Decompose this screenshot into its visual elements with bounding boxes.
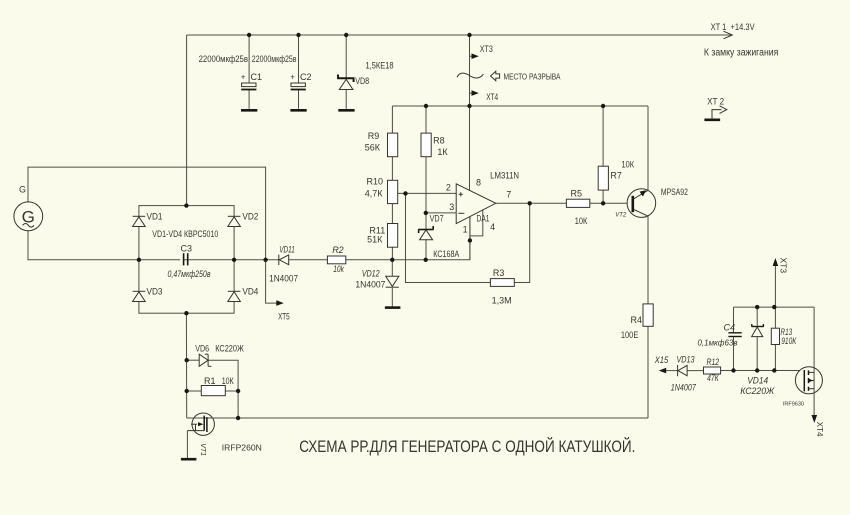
capacitor C3 xyxy=(168,244,211,280)
svg-text:10К: 10К xyxy=(622,160,635,170)
svg-text:VD4: VD4 xyxy=(242,286,258,296)
junction: VD14 top xyxy=(755,305,759,309)
svg-text:G: G xyxy=(19,185,26,195)
wire: R4 down to gate line xyxy=(647,326,649,418)
svg-text:VD7: VD7 xyxy=(430,214,444,224)
svg-text:XT4: XT4 xyxy=(486,92,498,102)
svg-text:VD14: VD14 xyxy=(747,376,768,386)
svg-text:7: 7 xyxy=(506,190,511,200)
ground of C2 xyxy=(290,109,306,112)
svg-text:100Е: 100Е xyxy=(621,330,638,340)
wire: R12 to gate of VT3 xyxy=(721,370,805,372)
ground of C1 xyxy=(241,109,257,112)
terminal XT3 arrow on vertical xyxy=(470,44,493,59)
TVS diode VD8 1,5KE18 xyxy=(337,35,393,109)
svg-text:VD1-VD4 КВРС5010: VD1-VD4 КВРС5010 xyxy=(152,229,218,239)
svg-text:R5: R5 xyxy=(571,189,583,199)
svg-text:R12: R12 xyxy=(707,357,720,367)
diode VD12 1N4007 xyxy=(355,269,399,290)
svg-text:C3: C3 xyxy=(181,244,193,254)
svg-text:C2: C2 xyxy=(300,72,312,82)
terminal XT2 (ground + arrow) xyxy=(704,97,726,120)
transistor VT2 MPSA92 xyxy=(615,187,688,219)
op-amp U1 LM311N triangle xyxy=(456,184,496,224)
wire: R3 to output vertical xyxy=(514,203,529,282)
resistor R5 xyxy=(566,189,589,227)
diode VD13 1N4007 xyxy=(671,354,697,392)
wire: long gate line xyxy=(187,417,648,419)
svg-text:LM311N: LM311N xyxy=(490,170,519,180)
diode VD2 xyxy=(228,211,259,226)
resistor R10 xyxy=(365,177,398,204)
wire: generator bottom to bridge xyxy=(28,231,139,260)
diode VD4 xyxy=(228,286,259,301)
break squiggle (mesto razryva) xyxy=(457,73,483,78)
svg-text:22000мкф25в: 22000мкф25в xyxy=(199,54,249,64)
wire: VD6 row right + down xyxy=(208,360,238,418)
wire: VT3 drain vertical xyxy=(813,307,815,415)
wire: R1 row xyxy=(187,390,202,392)
svg-text:R9: R9 xyxy=(368,131,380,141)
resistor R12 xyxy=(704,357,721,383)
wire: R2 to op-amp pins 1,4 xyxy=(346,216,470,259)
svg-text:XT3: XT3 xyxy=(778,258,788,274)
svg-text:0,47мкф250в: 0,47мкф250в xyxy=(168,269,211,279)
op-amp minus input mark xyxy=(458,212,464,214)
block arrow pointer (mesto razryva) xyxy=(491,71,500,81)
junction: rail2/R8 xyxy=(424,104,428,108)
junction: XT5 branch xyxy=(263,258,267,262)
wire: left rail bridge bottom down xyxy=(185,313,187,418)
transistor VT3 IRF9630 xyxy=(783,367,823,408)
junction: bridge left xyxy=(137,258,141,262)
svg-text:VT1: VT1 xyxy=(199,443,206,456)
svg-text:51К: 51К xyxy=(367,235,383,245)
svg-text:X15: X15 xyxy=(654,355,669,365)
diode VD11 1N4007 xyxy=(269,245,298,284)
junction: pin2/feedback xyxy=(403,191,407,195)
wire: R7 leads xyxy=(602,106,604,166)
resistor R3 xyxy=(490,268,514,306)
diode VD1 xyxy=(133,211,163,226)
wire: VT2 emitter up to rail xyxy=(647,106,649,190)
svg-text:R8: R8 xyxy=(433,135,445,145)
terminal X15 arrow xyxy=(654,355,669,373)
svg-text:XT5: XT5 xyxy=(278,312,290,322)
zener diode VD14 KS220Zh xyxy=(740,324,775,396)
junction: rail/C2 xyxy=(296,33,300,37)
svg-text:R1: R1 xyxy=(204,376,216,386)
svg-text:DA1: DA1 xyxy=(477,213,490,223)
wire: op-amp pin3 input xyxy=(426,212,456,214)
wire: VD14 branch xyxy=(756,307,758,326)
svg-text:КС220Ж: КС220Ж xyxy=(740,386,775,396)
svg-text:2: 2 xyxy=(446,183,451,193)
wire: VD12 leads xyxy=(391,260,393,277)
svg-text:8: 8 xyxy=(476,178,481,188)
junction: R13 top xyxy=(772,305,776,309)
wire: VD6 row left xyxy=(187,359,200,361)
capacitor C2 leads xyxy=(298,35,300,83)
wire: XT5 branch xyxy=(266,260,277,303)
ground of VD12 xyxy=(385,306,401,309)
svg-text:+: + xyxy=(290,73,295,82)
wire: VD11 to R2 xyxy=(289,259,328,261)
svg-text:1N4007: 1N4007 xyxy=(269,274,298,284)
svg-text:22000мкф25в: 22000мкф25в xyxy=(252,54,297,64)
wire: R8/VD7 vertical xyxy=(425,106,427,133)
svg-text:IRF9630: IRF9630 xyxy=(783,401,804,407)
wire: rail down to bridge top xyxy=(186,35,188,206)
junction: bridge top xyxy=(184,203,188,207)
transistor VT1 IRFP260N xyxy=(187,413,262,458)
capacitor C1 leads xyxy=(248,35,250,83)
svg-text:1N4007: 1N4007 xyxy=(671,382,697,392)
wire: op-amp pin4 L-shape xyxy=(470,210,483,236)
svg-text:R7: R7 xyxy=(610,170,622,180)
svg-text:R2: R2 xyxy=(332,245,344,255)
svg-text:VD2: VD2 xyxy=(242,211,258,221)
resistor R11 xyxy=(367,224,398,248)
junction: bridge bottom xyxy=(184,311,188,315)
zener diode VD6 KS220Zh xyxy=(195,344,244,367)
terminal XT4 down arrow xyxy=(812,415,825,437)
resistor R1 xyxy=(201,376,234,396)
junction: output/R3 xyxy=(528,201,532,205)
svg-text:R10: R10 xyxy=(367,177,384,187)
svg-text:XT3: XT3 xyxy=(480,44,493,54)
ground of VT1 source xyxy=(181,458,197,461)
generator G1 xyxy=(14,185,43,231)
junction: rail/XT vertical xyxy=(467,33,471,37)
diode VD3 xyxy=(133,286,163,301)
junction: R13 bottom xyxy=(772,368,776,372)
terminal XT1 open arrow on top rail xyxy=(724,31,733,39)
svg-text:МЕСТО РАЗРЫВА: МЕСТО РАЗРЫВА xyxy=(504,73,562,82)
svg-text:VD13: VD13 xyxy=(677,354,695,364)
svg-text:XT 1 +14.3V: XT 1 +14.3V xyxy=(711,22,755,32)
ground of VD8 xyxy=(338,109,354,112)
wire: top +V rail xyxy=(187,34,731,36)
capacitor C2 xyxy=(252,54,312,90)
junction: R1 left xyxy=(185,389,189,393)
svg-text:XT4: XT4 xyxy=(815,422,824,437)
wire: VT2 collector down to R4 xyxy=(647,216,649,304)
svg-text:56К: 56К xyxy=(365,143,381,153)
resistor R4 xyxy=(621,304,653,340)
svg-text:R3: R3 xyxy=(493,268,505,278)
svg-text:1: 1 xyxy=(463,224,468,234)
wire: VD13 to R12 xyxy=(687,370,703,372)
svg-text:1К: 1К xyxy=(437,147,448,157)
svg-text:КС220Ж: КС220Ж xyxy=(215,344,244,354)
svg-text:0,1мкф63в: 0,1мкф63в xyxy=(698,339,738,348)
junction: VD7 bottom xyxy=(424,258,428,262)
junction: pin3/VD7 xyxy=(424,211,428,215)
junction: rail/C1 xyxy=(247,33,251,37)
svg-text:К замку зажигания: К замку зажигания xyxy=(704,48,778,59)
resistor R8 xyxy=(421,133,448,157)
zener diode VD7 KS168A xyxy=(418,214,459,260)
svg-text:47К: 47К xyxy=(707,373,719,383)
svg-text:4,7К: 4,7К xyxy=(365,189,384,199)
wire: C4 branch xyxy=(733,307,735,332)
wire: R9 chain verticals xyxy=(391,106,393,133)
resistor R7 xyxy=(598,160,634,191)
resistor R9 xyxy=(365,131,398,157)
bridge rectifier VD1-VD4 KBPC5010 box xyxy=(139,206,234,314)
svg-text:XT 2: XT 2 xyxy=(707,97,724,107)
terminal XT5 arrow xyxy=(276,300,289,321)
svg-text:VT2: VT2 xyxy=(615,213,627,219)
svg-text:C4: C4 xyxy=(724,323,736,333)
wire: mid AC wire through bridge xyxy=(139,259,279,261)
wire: R5 to base xyxy=(590,202,632,204)
svg-text:VD12: VD12 xyxy=(362,269,380,279)
wire: snubber top wire xyxy=(734,306,815,308)
op-amp plus input mark xyxy=(459,192,463,196)
junction: pins 1-4 xyxy=(468,238,472,242)
svg-text:VD11: VD11 xyxy=(279,245,295,255)
wire: op-amp pin2 input xyxy=(398,192,457,194)
svg-text:910К: 910К xyxy=(781,336,797,346)
svg-text:1,3М: 1,3М xyxy=(492,296,512,306)
junction: bridge right xyxy=(232,258,236,262)
wire: op-amp output to R5 xyxy=(496,202,567,204)
junction: VD6 left xyxy=(185,358,189,362)
svg-text:4: 4 xyxy=(490,222,495,232)
junction: gate line/R1 vertical xyxy=(236,416,240,420)
svg-text:1N4007: 1N4007 xyxy=(355,280,385,290)
svg-text:C1: C1 xyxy=(251,72,263,82)
svg-text:R4: R4 xyxy=(631,315,643,325)
junction: rail2/R7 xyxy=(601,104,605,108)
terminal XT3 up arrow xyxy=(773,258,789,274)
wire: second rail xyxy=(392,105,648,107)
junction: R5/R7/base xyxy=(601,201,605,205)
wire: X15 to VD13 xyxy=(663,370,678,372)
resistor R13 xyxy=(771,327,796,346)
wire: feedback down-left to R3 xyxy=(406,193,491,282)
svg-text:10k: 10k xyxy=(333,264,344,274)
svg-text:КС168А: КС168А xyxy=(433,249,459,259)
resistor R2 xyxy=(327,245,345,274)
capacitor C4 xyxy=(698,323,742,348)
wire: generator top loop xyxy=(28,167,266,260)
svg-text:VD3: VD3 xyxy=(147,286,163,296)
svg-text:MPSA92: MPSA92 xyxy=(661,187,688,197)
svg-text:VD8: VD8 xyxy=(355,76,369,86)
capacitor C1 xyxy=(199,54,262,90)
wire: XT3 arrow line through R13 xyxy=(774,261,776,328)
junction: R1 right xyxy=(236,389,240,393)
svg-text:1,5КЕ18: 1,5КЕ18 xyxy=(366,61,394,71)
wire: op-amp pin1 down to mid wire xyxy=(469,216,471,259)
junction: rail2/XT vertical xyxy=(467,104,471,108)
junction: rail/VD8 xyxy=(344,33,348,37)
terminal XT4 arrow on vertical xyxy=(470,90,499,102)
svg-text:3: 3 xyxy=(449,202,454,212)
wire: XT3/XT4 vertical from rail to op-amp pin8 xyxy=(469,35,471,191)
svg-text:10К: 10К xyxy=(222,376,235,386)
svg-text:VD6: VD6 xyxy=(195,344,209,354)
svg-text:10К: 10К xyxy=(575,216,588,226)
junction: VD14 bottom xyxy=(755,368,759,372)
svg-text:IRFP260N: IRFP260N xyxy=(222,444,262,453)
svg-text:VD1: VD1 xyxy=(147,211,163,221)
junction: C4 bottom xyxy=(731,368,735,372)
svg-text:СХЕМА РР.ДЛЯ ГЕНЕРАТОРА С ОДНО: СХЕМА РР.ДЛЯ ГЕНЕРАТОРА С ОДНОЙ КАТУШКОЙ… xyxy=(299,437,635,456)
svg-text:+: + xyxy=(241,73,246,82)
junction: R11/VD12 xyxy=(390,258,394,262)
